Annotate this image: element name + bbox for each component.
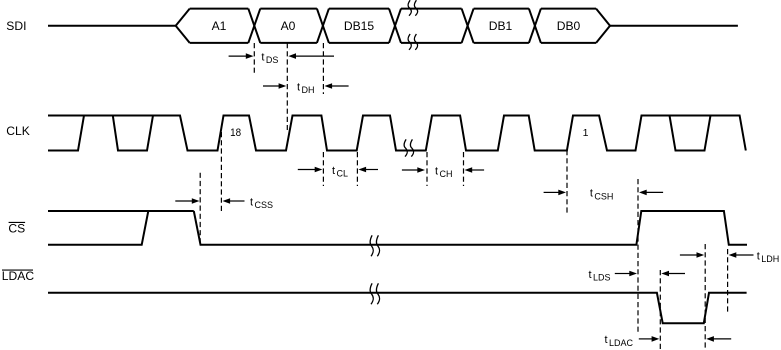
svg-text:DH: DH — [302, 85, 315, 95]
svg-text:CSS: CSS — [255, 200, 274, 210]
svg-text:t: t — [261, 51, 264, 63]
svg-text:A0: A0 — [281, 19, 296, 33]
svg-text:t: t — [435, 165, 438, 177]
svg-text:CSH: CSH — [594, 191, 613, 201]
svg-text:CS: CS — [8, 221, 25, 235]
svg-text:t: t — [589, 269, 592, 281]
svg-text:SDI: SDI — [6, 19, 26, 33]
svg-text:LDS: LDS — [593, 272, 611, 282]
svg-text:CLK: CLK — [6, 124, 30, 138]
svg-text:18: 18 — [230, 127, 241, 139]
svg-text:LDAC: LDAC — [609, 338, 634, 348]
svg-text:A1: A1 — [212, 19, 227, 33]
svg-text:CH: CH — [440, 169, 453, 179]
svg-text:t: t — [250, 196, 253, 208]
svg-text:t: t — [590, 188, 593, 200]
svg-text:t: t — [297, 81, 300, 93]
svg-text:t: t — [757, 250, 760, 262]
svg-text:1: 1 — [583, 127, 589, 139]
svg-text:t: t — [605, 334, 608, 346]
svg-text:DB0: DB0 — [557, 19, 581, 33]
svg-text:DB15: DB15 — [344, 19, 375, 33]
svg-text:LDAC: LDAC — [2, 269, 35, 283]
svg-text:CL: CL — [337, 168, 349, 178]
svg-text:t: t — [332, 165, 335, 177]
svg-text:DB1: DB1 — [489, 19, 513, 33]
svg-text:DS: DS — [266, 55, 279, 65]
svg-text:LDH: LDH — [761, 254, 779, 264]
